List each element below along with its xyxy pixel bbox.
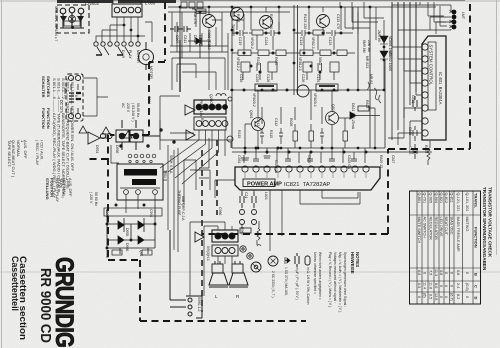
diode VD802	[380, 51, 388, 59]
svg-text:D956: D956	[115, 145, 119, 153]
motor M	[139, 42, 154, 70]
svg-text:) REC. / PLAY: ) REC. / PLAY	[35, 140, 40, 166]
svg-text:NORMAL: NORMAL	[62, 178, 67, 196]
svg-text:D951: D951	[95, 145, 99, 153]
wire top bus	[168, 7, 436, 12]
switch contact row (DIR/PLAY/MOTOR)	[94, 42, 140, 55]
battery pack BATT 6V / DC 12V	[66, 74, 83, 121]
svg-text:0: 0	[439, 296, 443, 298]
transistor voltage table	[410, 191, 481, 304]
svg-text:L 806: L 806	[145, 1, 156, 6]
svg-text:QUENZ-BEAT CUT (: QUENZ-BEAT CUT (	[11, 140, 16, 178]
svg-text:PETM 10k: PETM 10k	[199, 100, 203, 117]
wires mid right	[227, 90, 380, 148]
fold line	[0, 271, 500, 273]
svg-text:L821: L821	[264, 192, 268, 200]
components above power amp	[241, 148, 365, 163]
svg-text:B: B	[474, 273, 479, 276]
power rail dots	[244, 147, 368, 154]
wire mid bus	[230, 90, 432, 152]
radio board connector (filled pins)	[194, 100, 228, 114]
svg-text:HZ7B2: HZ7B2	[198, 35, 202, 46]
svg-text:Q801: Q801	[249, 110, 253, 119]
notes symbols	[251, 253, 310, 272]
svg-text:R215: R215	[237, 130, 241, 138]
svg-text:Q-812: Q-812	[444, 193, 448, 204]
zener D808	[188, 38, 211, 44]
component row C216 C225 C126	[241, 62, 339, 80]
svg-text:Play = V, Record = ( V ), Main: Play = V, Record = ( V ), Mains = [ V ].	[328, 252, 332, 308]
svg-text:R967: R967	[240, 227, 244, 235]
wire diode column	[383, 20, 385, 90]
svg-text:6 V: 6 V	[74, 95, 78, 101]
svg-text:C806 | C812: C806 | C812	[207, 30, 211, 50]
svg-text:(6.7): (6.7)	[449, 293, 453, 302]
svg-text:R211: R211	[200, 118, 204, 126]
system control IC831 body	[422, 36, 446, 140]
svg-text:C: C	[474, 285, 479, 288]
svg-text:220 V: 220 V	[126, 103, 130, 113]
svg-text:1 SS 270 ( MA 165,: 1 SS 270 ( MA 165,	[284, 267, 288, 296]
speaker L	[209, 261, 228, 287]
svg-text:C124: C124	[299, 37, 303, 45]
svg-text:Q01: Q01	[139, 250, 143, 257]
svg-text:C123: C123	[328, 37, 332, 45]
mains plug connector	[101, 120, 161, 150]
S0931-2 bracket	[170, 230, 202, 318]
svg-text:MUTE SWITCH: MUTE SWITCH	[417, 217, 421, 244]
svg-text:Q-904: Q-904	[434, 193, 438, 204]
svg-text:R115: R115	[269, 130, 273, 138]
svg-text:50 60 Hz: 50 60 Hz	[94, 192, 98, 206]
svg-text:Mtg. = V, Aufn. = ( V ), Netzb: Mtg. = V, Aufn. = ( V ), Netzbetrieb = […	[338, 252, 342, 313]
wires connectors to speakers	[190, 222, 232, 296]
svg-text:6.5: 6.5	[429, 294, 433, 299]
svg-text:SUB-3A/C 5BR134 x 7: SUB-3A/C 5BR134 x 7	[54, 6, 58, 41]
svg-text:0: 0	[439, 285, 443, 287]
wire right bus to system control	[392, 2, 416, 140]
svg-text:SCHALTER: SCHALTER	[41, 76, 46, 98]
svg-text:VR812-1: VR812-1	[298, 57, 302, 71]
svg-text:MUTING: MUTING	[465, 217, 469, 232]
R967 + zigzag below amp	[240, 221, 260, 259]
svg-text:PLAY: PLAY	[128, 50, 132, 59]
connector CN802 sub assembly (top-left dashed box)	[57, 5, 89, 33]
svg-text:VR820-1: VR820-1	[313, 93, 317, 107]
svg-text:MR 821: MR 821	[365, 56, 369, 68]
svg-text:C990: C990	[105, 209, 109, 217]
transistor Q121	[260, 16, 273, 29]
capacitor C831	[413, 96, 417, 111]
svg-text:C825 0.1: C825 0.1	[347, 155, 351, 169]
opamp triangle pre	[88, 132, 108, 144]
svg-text:LED DRIVE: LED DRIVE	[439, 217, 443, 238]
svg-text:C831: C831	[411, 95, 415, 103]
svg-text:REGULATOR: REGULATOR	[429, 217, 433, 241]
top edge dark segments	[57, 1, 465, 2]
svg-text:C35 021: C35 021	[274, 160, 278, 173]
capacitors C807 C811	[170, 26, 191, 32]
svg-text:VR82-1: VR82-1	[311, 37, 315, 49]
transistor Q101	[231, 8, 244, 21]
svg-text:TAY805: TAY805	[231, 24, 235, 36]
inductor L1	[216, 94, 232, 102]
svg-text:R825: R825	[424, 145, 428, 153]
svg-text:C112: C112	[274, 118, 278, 126]
svg-text:(6): (6)	[423, 293, 427, 298]
svg-text:Q-121, 221: Q-121, 221	[456, 193, 460, 212]
bridge rectifier D955-D966	[104, 208, 162, 255]
svg-text:C804: C804	[147, 96, 151, 104]
small boxes top edge	[181, 2, 203, 8]
resistor R808	[196, 9, 206, 14]
inner dashed line (output section)	[201, 150, 203, 312]
svg-text:D821 1N7-25mA: D821 1N7-25mA	[351, 103, 355, 130]
svg-text:POWER AMP: POWER AMP	[247, 182, 282, 188]
svg-text:S 001-1...-4 ——— TAPE (TUNER/: S 001-1...-4 ——— TAPE (TUNER/CD)/AUX. RA…	[57, 78, 62, 193]
svg-text:SICH. 0,5 A: SICH. 0,5 A	[169, 155, 173, 174]
svg-text:MOTOR: MOTOR	[136, 50, 140, 63]
small wire verticals amp rows	[209, 7, 353, 90]
junction dots bridge	[106, 128, 176, 249]
resistor symbol note	[305, 256, 310, 265]
svg-text:C811: C811	[183, 35, 187, 43]
svg-text:Spannungen gemessen ohne Signa: Spannungen gemessen ohne Signal :	[343, 252, 347, 307]
svg-text:Q821: Q821	[331, 104, 335, 113]
svg-text:Q-811: Q-811	[449, 193, 453, 203]
junction dots amp	[231, 6, 372, 92]
switch table SCHALTER	[7, 76, 78, 202]
svg-text:0: 0	[423, 272, 427, 274]
below power amp: output caps and jacks	[240, 190, 257, 225]
svg-text:in µF ( P = pF ), 50 V ): in µF ( P = pF ), 50 V )	[295, 267, 299, 300]
svg-text:VD802 1N60: VD802 1N60	[388, 51, 392, 71]
svg-text:R026: R026	[289, 118, 293, 126]
svg-text:R823: R823	[365, 100, 369, 108]
svg-text:NORMAL: NORMAL	[16, 140, 21, 158]
svg-text:S 901-1,2 —— NETZ, POWER EIN: S 901-1,2 —— NETZ, POWER EIN. ON / AUS. …	[70, 78, 75, 171]
notes block HINWEISE	[271, 252, 360, 313]
power amp IC821 body	[235, 167, 380, 190]
svg-text:BIAS OSC.: BIAS OSC.	[449, 217, 453, 236]
top-right routing loops	[340, 2, 447, 40]
svg-text:HINWEISE: HINWEISE	[350, 252, 355, 274]
svg-text:D808: D808	[193, 35, 197, 43]
svg-text:0.8: 0.8	[439, 270, 443, 275]
fan-out wires from connector to pot block	[160, 120, 232, 184]
radio board connector (open pins)	[194, 117, 228, 130]
IC820 circle	[297, 85, 309, 97]
svg-text:C981: C981	[237, 155, 241, 163]
svg-text:FUNCTION: FUNCTION	[474, 227, 479, 248]
handwriting squiggles	[257, 82, 381, 246]
svg-text:D966: D966	[125, 243, 129, 251]
svg-text:11.3: 11.3	[434, 269, 438, 276]
svg-text:8.0: 8.0	[434, 283, 438, 288]
component row C219 VR20-2 C224	[234, 30, 340, 36]
opamp triangles mid	[185, 105, 204, 242]
svg-text:50-60 Hz: 50-60 Hz	[136, 103, 140, 117]
svg-text:88B QRP-C 2 A: 88B QRP-C 2 A	[181, 196, 185, 221]
svg-text:R203: R203	[236, 14, 240, 22]
svg-text:C225: C225	[255, 74, 259, 82]
svg-text:RR 9000 CD: RR 9000 CD	[37, 268, 54, 343]
svg-text:D955: D955	[125, 228, 129, 236]
transistor Q221	[317, 15, 330, 28]
component row horizontal links	[232, 22, 355, 53]
wires transformer area	[168, 145, 210, 252]
left preamp wire mesh	[170, 9, 228, 92]
speaker connector (filled)	[212, 230, 238, 242]
svg-text:12.8: 12.8	[434, 293, 438, 300]
svg-text:Q-801: Q-801	[417, 193, 421, 204]
svg-text:(0.6): (0.6)	[465, 283, 469, 292]
screw symbol	[251, 262, 261, 272]
svg-text:D: D	[474, 297, 479, 300]
svg-text:Q-905: Q-905	[429, 193, 433, 204]
capacitor symbol note	[295, 253, 299, 267]
svg-text:AUS. OFF: AUS. OFF	[23, 140, 28, 159]
svg-text:TRANSISTOR VOLTAGE CHECK: TRANSISTOR VOLTAGE CHECK	[488, 187, 493, 258]
svg-text:NOTES: NOTES	[355, 252, 360, 267]
svg-text:11.8: 11.8	[429, 282, 433, 289]
svg-text:0: 0	[465, 272, 469, 274]
IC831 internal label	[428, 42, 436, 110]
connector L806 block top	[112, 0, 142, 17]
svg-text:Q2UO: Q2UO	[209, 94, 213, 104]
svg-text:BASS TREBLE AMP.: BASS TREBLE AMP.	[456, 217, 460, 253]
svg-text:C825: C825	[408, 146, 412, 154]
resistor R823 + transistor Q smalls mid right	[252, 106, 370, 131]
svg-text:D I R: D I R	[121, 50, 125, 58]
svg-text:Wenn nicht anders angegeben =: Wenn nicht anders angegeben =	[318, 252, 322, 300]
svg-text:R123 220: R123 220	[303, 14, 307, 29]
svg-text:C21: C21	[244, 192, 248, 198]
svg-text:VR20-2: VR20-2	[250, 37, 254, 49]
svg-text:R225: R225	[256, 57, 260, 65]
svg-text:/ CD / AUX.: / CD / AUX.	[40, 140, 45, 160]
svg-text:SYSTEM CONTROL: SYSTEM CONTROL	[429, 45, 434, 86]
svg-text:AUS. OFF: AUS. OFF	[68, 178, 73, 197]
svg-text:TRANSISTOR SPANNUNGSANGABEN: TRANSISTOR SPANNUNGSANGABEN	[482, 187, 487, 271]
POWER AMP label box	[243, 179, 275, 187]
svg-text:T901: T901	[163, 170, 167, 178]
svg-text:C224: C224	[264, 37, 268, 45]
svg-text:BATT.: BATT.	[63, 88, 67, 98]
lamp cluster	[452, 10, 457, 30]
svg-text:FUNCTION: FUNCTION	[46, 108, 51, 129]
svg-text:S990-1-2: S990-1-2	[197, 297, 201, 311]
svg-text:C815: C815	[408, 127, 412, 135]
speaker R	[229, 261, 248, 287]
svg-text:R829 22: R829 22	[379, 155, 383, 168]
warning triangles	[79, 126, 132, 138]
IC831 pins	[422, 44, 428, 136]
svg-text:0.5: 0.5	[417, 283, 421, 288]
transistor symbol 2SC	[268, 256, 278, 266]
svg-text:SWITCHES: SWITCHES	[46, 76, 51, 97]
wires below amp	[215, 180, 360, 251]
svg-text:AC SWITCH: AC SWITCH	[423, 217, 427, 239]
svg-text:22B 3M: 22B 3M	[367, 40, 371, 52]
svg-text:Unless otherwise specified =: Unless otherwise specified =	[313, 252, 317, 294]
svg-text:C966: C966	[218, 207, 222, 215]
svg-text:7.5: 7.5	[429, 270, 433, 275]
diode symbol note	[285, 257, 290, 264]
junction dots	[123, 24, 140, 38]
svg-text:11.4: 11.4	[423, 282, 427, 289]
svg-text:C986: C986	[105, 250, 109, 258]
svg-text:0: 0	[417, 296, 421, 298]
svg-text:BEAT CUT: BEAT CUT	[444, 217, 448, 236]
svg-text:2 SC 3330 ( S, T ).: 2 SC 3330 ( S, T ).	[271, 271, 275, 298]
svg-text:VR820-2: VR820-2	[252, 93, 256, 107]
svg-text:IC 831 BA3304A: IC 831 BA3304A	[438, 72, 443, 105]
svg-text:0: 0	[444, 285, 448, 287]
svg-text:R625: R625	[274, 57, 278, 65]
junction dots right	[244, 46, 417, 154]
svg-text:MOTOR: MOTOR	[149, 66, 153, 79]
svg-text:FUNKTION: FUNKTION	[41, 108, 46, 129]
svg-text:CN802: CN802	[85, 1, 100, 6]
svg-text:C216: C216	[239, 74, 243, 82]
power transformer	[117, 154, 163, 213]
svg-text:2.4: 2.4	[456, 283, 460, 288]
VR820-1 slider	[316, 84, 338, 91]
wires to IC831 pins	[388, 2, 422, 146]
junction dots amp rows	[179, 6, 386, 92]
svg-text:Cassetten section: Cassetten section	[17, 256, 28, 340]
svg-text:in Ω, 1/6 W ± 5%, Carbon: in Ω, 1/6 W ± 5%, Carbon	[306, 267, 310, 305]
IC821 pins	[242, 166, 369, 172]
svg-text:0.8: 0.8	[456, 270, 460, 275]
svg-text:C125: C125	[316, 74, 320, 82]
svg-text:Q-101, 201: Q-101, 201	[465, 193, 469, 212]
VR820-2 slider	[255, 84, 277, 91]
mid vertical components row	[260, 90, 348, 148]
svg-text:DC 12 V: DC 12 V	[59, 100, 63, 114]
svg-text:R223 220: R223 220	[269, 14, 273, 29]
svg-text:0: 0	[449, 272, 453, 274]
caps C815 C825 column	[413, 126, 430, 165]
svg-text:( 03-348 V ): ( 03-348 V )	[131, 103, 135, 121]
svg-text:50kΩ: 50kΩ	[318, 57, 322, 66]
svg-text:8.2: 8.2	[456, 294, 460, 299]
svg-text:C126: C126	[266, 74, 270, 82]
svg-text:0: 0	[449, 285, 453, 287]
svg-text:2M9 80: 2M9 80	[377, 30, 381, 42]
svg-text:0: 0	[444, 296, 448, 298]
svg-text:C212: C212	[256, 118, 260, 126]
svg-text:MR 82: MR 82	[369, 74, 373, 84]
svg-text:C829: C829	[307, 155, 311, 163]
svg-text:STELLUNG: STELLUNG	[45, 178, 50, 200]
component row VR812-2 R225 VR812-1	[238, 50, 347, 56]
svg-text:6M9 8M: 6M9 8M	[362, 40, 366, 53]
svg-text:POSITION: POSITION	[50, 178, 55, 197]
svg-text:C226: C226	[301, 74, 305, 82]
svg-text:5/9(3)H-1: 5/9(3)H-1	[206, 246, 210, 261]
wires from connector to switch row	[96, 17, 152, 42]
svg-text:THERMO FUSE: THERMO FUSE	[177, 190, 181, 216]
transistor Q801 left stage	[203, 15, 216, 28]
svg-text:VR812-2: VR812-2	[236, 57, 240, 71]
AC 220V wire frame	[111, 96, 209, 180]
svg-text:IC821 TA7282AP: IC821 TA7282AP	[284, 182, 330, 188]
svg-text:C991: C991	[149, 209, 153, 217]
svg-text:0.6: 0.6	[417, 270, 421, 275]
svg-text:C113 470: C113 470	[336, 14, 340, 29]
wire vertical runs top section	[180, 5, 385, 148]
svg-text:C827: C827	[391, 155, 395, 163]
svg-text:Q-821: Q-821	[439, 193, 443, 204]
svg-text:Voltages measured without sign: Voltages measured without signal :	[333, 252, 337, 303]
svg-text:C807: C807	[175, 35, 179, 43]
svg-text:0: 0	[465, 296, 469, 298]
diode VD801	[380, 36, 388, 44]
svg-text:LMT: LMT	[461, 12, 465, 20]
component reference labels	[54, 6, 465, 311]
svg-text:REGULATOR: REGULATOR	[434, 217, 438, 241]
svg-text:0: 0	[444, 272, 448, 274]
svg-text:AC: AC	[121, 103, 125, 108]
battery leads	[83, 78, 108, 116]
svg-text:C219: C219	[238, 37, 242, 45]
svg-text:TRANS.: TRANS.	[474, 193, 479, 208]
svg-text:Q-791: Q-791	[423, 193, 427, 204]
wires to lamp	[392, 2, 451, 34]
svg-text:( 220 V: ( 220 V	[89, 192, 93, 204]
svg-text:R808 470: R808 470	[193, 9, 197, 24]
speaker connector (open)	[212, 245, 238, 256]
cassette section dashed border	[86, 2, 470, 321]
